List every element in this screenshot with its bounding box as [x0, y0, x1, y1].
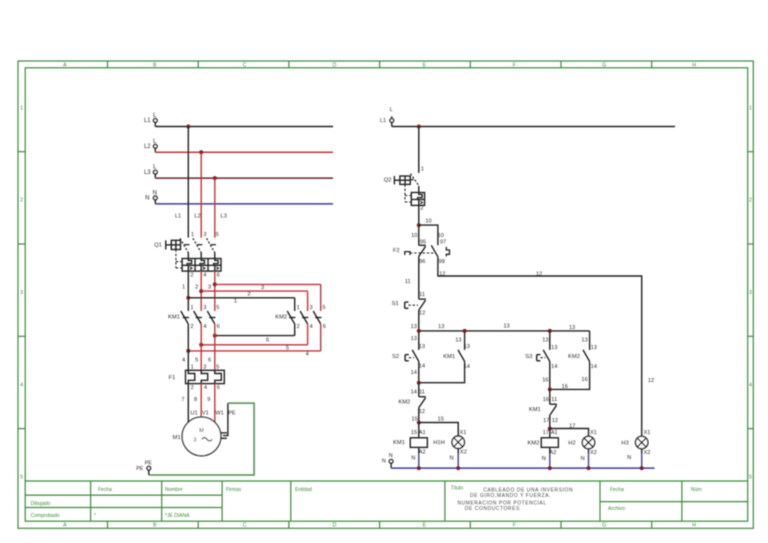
svg-text:14: 14: [411, 370, 417, 376]
svg-text:N: N: [450, 455, 454, 461]
svg-text:N: N: [145, 196, 149, 202]
svg-text:F1: F1: [169, 375, 176, 381]
svg-text:Fecha: Fecha: [98, 487, 112, 493]
svg-text:13: 13: [591, 345, 597, 351]
svg-text:X1: X1: [590, 430, 597, 436]
svg-text:L2: L2: [144, 144, 151, 150]
svg-text:L: L: [390, 107, 393, 113]
svg-text:13: 13: [569, 325, 575, 331]
svg-text:15: 15: [411, 430, 417, 436]
svg-text:10: 10: [425, 219, 431, 225]
svg-text:3: 3: [310, 305, 313, 311]
svg-text:2: 2: [190, 324, 193, 330]
svg-text:3: 3: [193, 438, 196, 444]
svg-text:4: 4: [20, 382, 23, 388]
svg-text:X1: X1: [644, 430, 651, 436]
svg-text:3: 3: [208, 284, 211, 290]
svg-text:3: 3: [203, 232, 206, 238]
svg-text:C: C: [243, 62, 247, 68]
svg-text:Nombre: Nombre: [165, 487, 183, 493]
svg-text:KM2: KM2: [398, 400, 410, 406]
svg-text:1: 1: [421, 167, 424, 173]
svg-text:1: 1: [191, 364, 194, 370]
svg-text:16: 16: [562, 384, 568, 390]
svg-text:3: 3: [261, 285, 264, 291]
svg-text:L1: L1: [144, 118, 151, 124]
svg-text:6: 6: [323, 324, 326, 330]
svg-text:11: 11: [419, 292, 425, 298]
svg-text:1: 1: [749, 105, 752, 111]
svg-text:X2: X2: [590, 450, 597, 456]
svg-text:2: 2: [20, 198, 23, 204]
svg-text:PE: PE: [136, 466, 144, 472]
svg-text:16: 16: [581, 377, 587, 383]
svg-text:14: 14: [411, 389, 417, 395]
svg-text:3: 3: [20, 290, 23, 296]
svg-text:KM1: KM1: [529, 407, 541, 413]
svg-text:5: 5: [20, 475, 23, 481]
svg-text:X1: X1: [460, 430, 467, 436]
svg-text:H3: H3: [621, 441, 628, 447]
svg-text:M1: M1: [173, 435, 181, 441]
svg-text:N: N: [581, 456, 585, 462]
svg-text:2: 2: [749, 198, 752, 204]
svg-text:Comprobado: Comprobado: [31, 513, 60, 519]
svg-text:A2: A2: [419, 450, 426, 456]
svg-text:5: 5: [195, 357, 198, 363]
svg-text:S3: S3: [525, 354, 532, 360]
svg-text:V1: V1: [202, 410, 209, 416]
svg-text:16: 16: [543, 397, 549, 403]
svg-text:KM1: KM1: [443, 354, 455, 360]
svg-text:95: 95: [420, 239, 426, 245]
svg-text:U1: U1: [190, 410, 197, 416]
svg-text:17: 17: [543, 418, 549, 424]
svg-text:6: 6: [217, 272, 220, 278]
svg-text:H: H: [692, 523, 696, 529]
svg-text:F: F: [513, 523, 516, 529]
svg-text:A: A: [63, 62, 67, 68]
svg-text:DE GIRO,MANDO Y FUERZA.: DE GIRO,MANDO Y FUERZA.: [470, 493, 551, 499]
svg-text:N: N: [389, 453, 393, 459]
svg-text:3: 3: [749, 290, 752, 296]
svg-text:4: 4: [749, 382, 752, 388]
svg-text:Firmas: Firmas: [226, 487, 242, 493]
svg-text:B: B: [153, 62, 157, 68]
svg-text:1: 1: [234, 298, 237, 304]
svg-text:Título: Título: [451, 486, 464, 492]
svg-text:1: 1: [20, 105, 23, 111]
svg-text:G: G: [602, 523, 606, 529]
svg-text:Fecha: Fecha: [610, 487, 624, 493]
svg-text:6: 6: [208, 357, 211, 363]
svg-text:10: 10: [411, 233, 417, 239]
svg-text:KM2: KM2: [568, 354, 580, 360]
svg-text:2: 2: [195, 284, 198, 290]
svg-text:16: 16: [542, 377, 548, 383]
svg-text:F: F: [513, 62, 516, 68]
svg-text:5: 5: [286, 346, 289, 352]
svg-text:12: 12: [552, 418, 558, 424]
svg-text:1: 1: [190, 305, 193, 311]
svg-text:A1: A1: [551, 430, 558, 436]
svg-text:B: B: [153, 523, 157, 529]
svg-text:X2: X2: [644, 450, 651, 456]
svg-text:C: C: [243, 523, 247, 529]
svg-text:*: *: [94, 513, 96, 519]
svg-text:KM2: KM2: [275, 315, 287, 321]
svg-text:D: D: [333, 62, 337, 68]
svg-text:7: 7: [181, 397, 184, 403]
svg-text:DE CONDUCTORES: DE CONDUCTORES: [465, 506, 520, 512]
svg-text:Dibujado: Dibujado: [31, 501, 51, 507]
svg-text:4: 4: [182, 357, 185, 363]
svg-text:13: 13: [455, 337, 461, 343]
svg-text:F2: F2: [393, 248, 400, 254]
svg-text:M: M: [199, 428, 204, 434]
svg-text:3: 3: [203, 364, 206, 370]
svg-text:2: 2: [190, 272, 193, 278]
svg-text:1: 1: [297, 305, 300, 311]
svg-text:4: 4: [203, 272, 206, 278]
svg-text:PE: PE: [228, 410, 236, 416]
svg-text:N: N: [542, 456, 546, 462]
svg-text:4: 4: [306, 352, 309, 358]
svg-text:11: 11: [405, 279, 411, 285]
svg-text:Q2: Q2: [384, 177, 392, 183]
svg-text:13: 13: [464, 344, 470, 350]
svg-text:13: 13: [438, 324, 444, 330]
svg-text:N: N: [411, 455, 415, 461]
svg-text:5: 5: [216, 364, 219, 370]
svg-text:2: 2: [191, 385, 194, 391]
svg-text:13: 13: [551, 345, 557, 351]
svg-text:3: 3: [203, 305, 206, 311]
svg-text:1: 1: [191, 232, 194, 238]
svg-text:KM1: KM1: [393, 440, 405, 446]
svg-text:Núm:: Núm:: [691, 487, 703, 493]
svg-text:96: 96: [419, 259, 425, 265]
svg-text:12: 12: [536, 271, 542, 277]
svg-text:15: 15: [438, 416, 444, 422]
svg-text:4: 4: [204, 385, 207, 391]
svg-text:8: 8: [194, 397, 197, 403]
svg-text:Q1: Q1: [154, 242, 162, 248]
svg-text:13: 13: [419, 344, 425, 350]
svg-text:10: 10: [438, 233, 444, 239]
svg-text:H1H: H1H: [433, 440, 445, 446]
svg-text:N: N: [627, 455, 631, 461]
svg-text:13: 13: [503, 324, 509, 330]
svg-text:5: 5: [216, 232, 219, 238]
svg-text:H: H: [692, 62, 696, 68]
svg-text:L3: L3: [221, 213, 227, 219]
svg-text:5: 5: [749, 475, 752, 481]
svg-text:13: 13: [581, 337, 587, 343]
svg-text:L1: L1: [175, 213, 181, 219]
svg-text:6: 6: [266, 338, 269, 344]
svg-text:17: 17: [543, 430, 549, 436]
svg-text:Entidad: Entidad: [295, 487, 312, 493]
svg-text:6: 6: [217, 385, 220, 391]
svg-text:L2: L2: [194, 213, 200, 219]
svg-text:13: 13: [411, 324, 417, 330]
svg-text:KM1: KM1: [168, 315, 180, 321]
svg-text:5: 5: [322, 305, 325, 311]
svg-text:11: 11: [419, 389, 425, 395]
svg-text:X2: X2: [460, 450, 467, 456]
svg-text:97: 97: [440, 239, 446, 245]
svg-text:PE: PE: [145, 461, 153, 467]
svg-text:2: 2: [247, 292, 250, 298]
svg-text:17: 17: [569, 423, 575, 429]
svg-text:*JE DIANA: *JE DIANA: [165, 513, 190, 519]
svg-text:6: 6: [217, 324, 220, 330]
svg-text:E: E: [423, 62, 427, 68]
svg-text:9: 9: [207, 397, 210, 403]
svg-text:12: 12: [419, 311, 425, 317]
svg-text:14: 14: [591, 364, 597, 370]
svg-text:A: A: [63, 523, 67, 529]
svg-text:L3: L3: [144, 170, 151, 176]
svg-text:N: N: [382, 459, 386, 465]
svg-text:4: 4: [310, 324, 313, 330]
svg-text:W1: W1: [215, 410, 224, 416]
svg-text:2: 2: [420, 206, 423, 212]
svg-text:D: D: [333, 523, 337, 529]
svg-text:12: 12: [439, 271, 445, 277]
svg-text:13: 13: [542, 337, 548, 343]
svg-text:L1: L1: [380, 118, 386, 124]
svg-text:14: 14: [419, 364, 425, 370]
svg-text:11: 11: [551, 397, 557, 403]
svg-text:G: G: [602, 62, 606, 68]
svg-text:H2: H2: [568, 441, 575, 447]
svg-text:E: E: [423, 523, 427, 529]
svg-text:15: 15: [412, 416, 418, 422]
svg-text:14: 14: [551, 364, 557, 370]
svg-text:Archivo:: Archivo:: [608, 506, 626, 512]
svg-text:5: 5: [216, 305, 219, 311]
svg-text:A1: A1: [419, 430, 426, 436]
svg-text:S2: S2: [392, 354, 399, 360]
svg-text:12: 12: [648, 378, 654, 384]
svg-text:1: 1: [182, 284, 185, 290]
svg-text:98: 98: [439, 259, 445, 265]
svg-text:KM2: KM2: [528, 440, 540, 446]
svg-text:13: 13: [411, 336, 417, 342]
svg-text:N: N: [153, 190, 157, 196]
svg-text:12: 12: [419, 409, 425, 415]
svg-text:4: 4: [203, 324, 206, 330]
svg-text:S1: S1: [392, 301, 399, 307]
svg-text:2: 2: [297, 324, 300, 330]
